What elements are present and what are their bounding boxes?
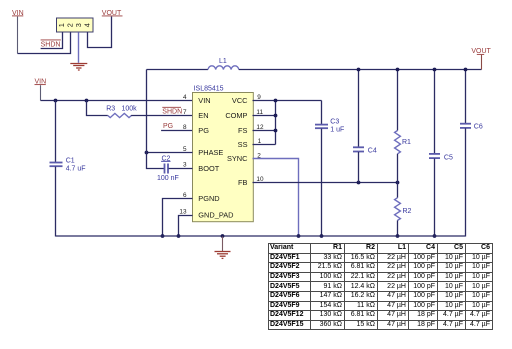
svg-text:FB: FB — [238, 178, 248, 187]
wire VCC tie (pins 9/11/12/1) — [253, 101, 322, 145]
net label VIN (connector) — [12, 10, 24, 54]
svg-text:EN: EN — [198, 111, 208, 120]
svg-text:9: 9 — [257, 94, 261, 101]
svg-text:R1: R1 — [402, 139, 411, 146]
svg-text:1: 1 — [258, 138, 262, 145]
junction R3 branch — [85, 99, 89, 103]
wire PHASE node down to C2 — [147, 153, 165, 169]
svg-text:100k: 100k — [122, 106, 138, 113]
junction FB C4 — [357, 181, 361, 185]
wire VIN rail to IC pin 4 — [41, 100, 193, 102]
IC U1 ISL85415 — [193, 86, 254, 222]
wire R3 to IC pin 7 (EN) — [131, 115, 192, 117]
net label PG + stub wire — [161, 123, 192, 130]
svg-text:R3: R3 — [106, 106, 115, 113]
capacitor C3 — [315, 101, 344, 237]
svg-text:12: 12 — [256, 124, 264, 131]
svg-text:8: 8 — [183, 124, 187, 131]
svg-text:1 uF: 1 uF — [330, 127, 344, 134]
svg-text:BOOT: BOOT — [198, 164, 219, 173]
svg-text:FS: FS — [238, 126, 248, 135]
resistor R2 — [395, 183, 412, 237]
ground rail (bottom) — [56, 235, 466, 237]
svg-text:SHDN: SHDN — [41, 41, 61, 48]
wire VIN to connector pin 2 — [18, 32, 71, 53]
svg-text:C3: C3 — [330, 118, 339, 125]
svg-text:R2: R2 — [403, 208, 412, 215]
capacitor C5 — [429, 70, 453, 237]
wire PHASE to node — [147, 152, 193, 154]
junction C6 at top rail — [464, 68, 468, 72]
junction PHASE node — [145, 151, 149, 155]
junction pin12 tie — [274, 129, 278, 133]
junction FB R1/R2 — [396, 181, 400, 185]
junction C5 at top rail — [433, 68, 437, 72]
capacitor C2 — [157, 155, 179, 182]
wire GND_PAD to ground rail — [179, 216, 193, 237]
svg-text:VCC: VCC — [232, 96, 248, 105]
junction ground symbol — [221, 234, 225, 238]
svg-text:C4: C4 — [368, 148, 377, 155]
svg-text:L1: L1 — [219, 58, 227, 65]
resistor R3 — [87, 101, 138, 118]
net label VOUT (top right) — [471, 48, 491, 69]
svg-text:C6: C6 — [474, 123, 483, 130]
svg-text:C1: C1 — [66, 158, 75, 165]
svg-text:SHDN: SHDN — [162, 109, 182, 116]
capacitor C6 — [460, 70, 483, 237]
inductor L1 — [208, 58, 239, 70]
net label VIN (main) — [35, 79, 47, 101]
ground (bottom) — [215, 237, 231, 259]
svg-text:ISL85415: ISL85415 — [194, 86, 224, 93]
capacitor C1 — [50, 101, 86, 237]
svg-text:100 nF: 100 nF — [157, 175, 179, 182]
wire SYNC to ground rail — [253, 159, 299, 237]
svg-text:PGND: PGND — [198, 194, 219, 203]
wire PHASE node up to L1 rail — [146, 70, 148, 153]
svg-text:6: 6 — [183, 192, 187, 199]
ground (connector) — [70, 64, 87, 71]
junction pin9 tie — [274, 99, 278, 103]
svg-text:SYNC: SYNC — [227, 154, 248, 163]
svg-text:COMP: COMP — [225, 111, 247, 120]
svg-text:5: 5 — [183, 146, 187, 153]
wire connector pin 4 to VOUT — [88, 17, 112, 48]
svg-text:PHASE: PHASE — [198, 148, 223, 157]
wire connector pin 1 to SHDN — [41, 32, 63, 48]
svg-text:4: 4 — [82, 23, 91, 27]
svg-text:C5: C5 — [444, 154, 453, 161]
junction SYNC at ground rail — [297, 234, 301, 238]
capacitor C4 — [353, 70, 377, 183]
wire connector pin 3 to ground — [78, 32, 80, 63]
net label VOUT (connector) — [102, 10, 123, 17]
net label SHDN (connector) — [41, 40, 61, 49]
top rail VOUT segment — [239, 69, 482, 71]
top rail left segment (PHASE to L1) — [147, 69, 209, 71]
junction C1 branch — [54, 99, 58, 103]
svg-text:GND_PAD: GND_PAD — [198, 211, 233, 220]
resistor R1 — [395, 70, 411, 183]
wire C2 to IC pin 3 (BOOT) — [169, 168, 193, 170]
svg-text:SS: SS — [238, 140, 248, 149]
wire PGND to ground rail — [163, 199, 193, 237]
junction GND_PAD — [177, 234, 181, 238]
junction C5 at ground rail — [433, 234, 437, 238]
net label SHDN (EN wire) — [162, 107, 182, 115]
junction PGND — [161, 234, 165, 238]
svg-text:4.7 uF: 4.7 uF — [66, 166, 86, 173]
svg-text:PG: PG — [198, 126, 209, 135]
svg-text:3: 3 — [183, 162, 187, 169]
svg-text:VIN: VIN — [198, 96, 210, 105]
svg-text:11: 11 — [256, 109, 263, 116]
variant table — [268, 243, 493, 330]
junction C3 at ground rail — [320, 234, 324, 238]
junction R2 at ground rail — [396, 234, 400, 238]
svg-text:13: 13 — [179, 208, 187, 215]
connector J1 — [57, 18, 94, 32]
svg-text:4: 4 — [183, 94, 187, 101]
wire FB to divider — [253, 182, 398, 184]
svg-text:PG: PG — [163, 123, 173, 130]
junction C4 at top rail — [357, 68, 361, 72]
junction pin11 tie — [274, 114, 278, 118]
svg-text:7: 7 — [183, 109, 187, 116]
junction R1 at top rail — [396, 68, 400, 72]
